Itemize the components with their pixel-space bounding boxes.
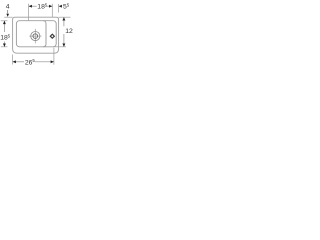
- wire: centerline through tap hole: [51, 4, 53, 47]
- dim 18.5 left: bottom extension line: [1, 46, 8, 48]
- drain crosshair: [34, 29, 36, 44]
- dim 18.5 left: top arrow: [3, 21, 6, 24]
- dim 26.5 bottom: left arrow: [13, 60, 16, 63]
- dim 5.5 top: right arrow outside: [59, 5, 62, 8]
- basin outer outline: [13, 17, 59, 53]
- dim 18.5 left: bottom arrow: [3, 44, 6, 47]
- svg-text:4: 4: [6, 3, 10, 10]
- dim 18.5 left: top extension line: [1, 20, 8, 22]
- dim 26.5 bottom: right arrow: [51, 60, 54, 63]
- drain inner circle: [33, 34, 38, 39]
- svg-text:12: 12: [65, 28, 73, 35]
- dim 26.5 bottom: right extension line: [53, 48, 55, 65]
- dim 26.5 bottom: left extension line: [12, 55, 14, 65]
- dim 12 right: dimension line: [63, 17, 65, 26]
- dim 18.5 top: left arrow: [29, 5, 32, 8]
- dim 18.5 top: left extension line: [28, 4, 30, 21]
- background: [0, 0, 75, 75]
- wire: top edge extended left: [4, 16, 12, 18]
- basin inner rim: [16, 21, 56, 47]
- dim 12 right: bottom extension line: [55, 46, 67, 48]
- dim 4: leader line: [7, 10, 9, 14]
- dim 4: arrow down: [6, 14, 9, 17]
- dim 18.5 top: right arrow: [49, 5, 52, 8]
- dim 5.5 top: right extension line: [58, 4, 60, 13]
- tap hole diamond: [50, 34, 54, 38]
- dim 12 right: top extension line: [59, 16, 71, 18]
- dim 26.5 bottom: dimension line: [13, 61, 24, 63]
- bowl right edge: [43, 21, 46, 47]
- drain outer circle: [31, 31, 40, 40]
- dim 12 right: top arrow: [62, 17, 65, 20]
- dim 18.5 top: dimension line: [29, 5, 37, 7]
- dim 18.5 left: dimension line: [3, 21, 5, 32]
- dim 12 right: bottom arrow: [62, 44, 65, 47]
